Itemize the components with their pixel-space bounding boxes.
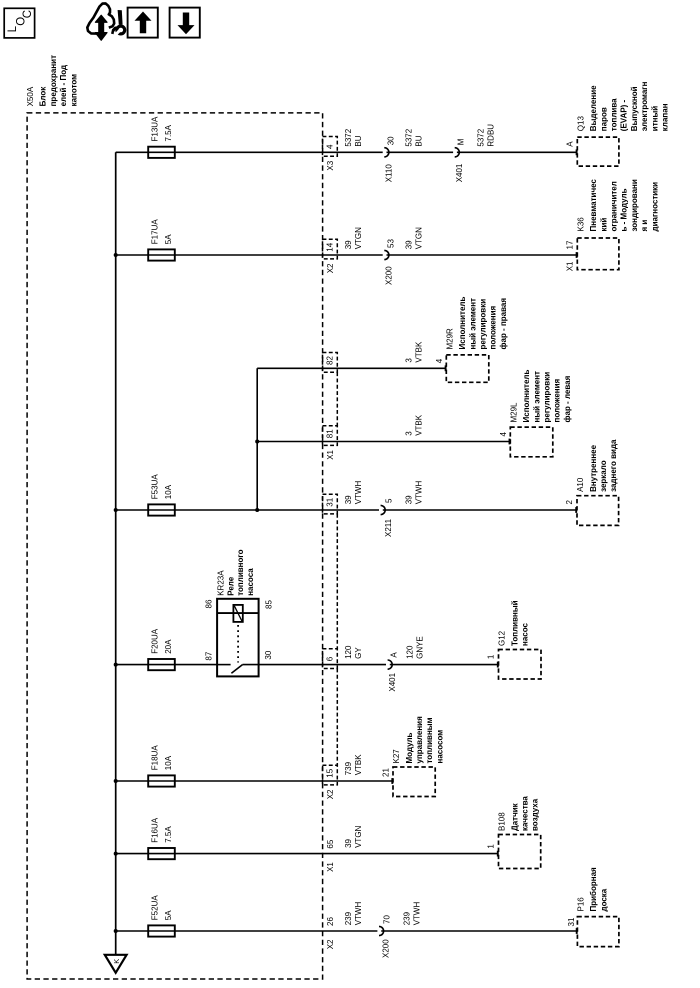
svg-text:P16: P16: [577, 897, 586, 912]
connector label X2 row5: [326, 789, 335, 799]
svg-text:VTGN: VTGN: [354, 227, 363, 249]
svg-text:управления: управления: [415, 716, 424, 764]
svg-text:ограничител: ограничител: [610, 181, 619, 231]
pin A of Q13: [565, 141, 574, 147]
svg-text:VTBK: VTBK: [354, 754, 363, 776]
svg-text:я и: я и: [640, 220, 649, 232]
svg-text:1: 1: [487, 844, 496, 849]
svg-text:топливного: топливного: [236, 549, 245, 595]
svg-text:70: 70: [382, 915, 391, 924]
svg-text:1: 1: [487, 654, 496, 659]
wire label 39 VTGN (1): [344, 227, 363, 249]
svg-text:6: 6: [326, 656, 335, 661]
svg-text:30: 30: [386, 136, 395, 145]
icon down arrow button: [170, 8, 200, 38]
svg-text:X401: X401: [455, 163, 464, 182]
fuse F53UA 10A: [148, 474, 175, 516]
svg-text:3: 3: [404, 358, 413, 363]
label K36 Пневматический ограничитель - Модуль зондирования и диагностики: [577, 179, 660, 232]
svg-text:26: 26: [326, 917, 335, 926]
wire label 39 VTWH (2): [404, 481, 423, 505]
svg-text:39: 39: [344, 838, 353, 847]
connector X1 dashed strip 31-6: [336, 514, 338, 649]
inline connector X200 pin 70: [379, 915, 391, 958]
svg-text:Реле: Реле: [226, 576, 235, 596]
svg-text:5372: 5372: [344, 128, 353, 146]
svg-text:F13UA: F13UA: [151, 116, 160, 142]
wire label 120 GY: [344, 645, 363, 659]
label M29L Исполнительный элемент регулировки положения фар - левая: [510, 370, 572, 423]
svg-text:39: 39: [404, 495, 413, 504]
svg-text:39: 39: [404, 240, 413, 249]
component K27 box: [393, 767, 435, 797]
svg-text:120: 120: [406, 645, 415, 659]
svg-text:VTWH: VTWH: [354, 902, 363, 926]
svg-text:X1: X1: [326, 862, 335, 872]
svg-text:X401: X401: [388, 672, 397, 691]
connector label X1 row6: [326, 862, 335, 872]
connector label X2 row2: [326, 263, 335, 273]
pin 4 of M29L: [499, 432, 508, 437]
component Q13 EVAP valve box: [577, 137, 619, 166]
svg-text:2: 2: [565, 500, 574, 505]
relay pin 86: [204, 599, 213, 608]
svg-text:3: 3: [404, 431, 413, 436]
svg-text:GY: GY: [354, 647, 363, 659]
svg-text:7.5A: 7.5A: [164, 124, 173, 141]
svg-text:39: 39: [344, 495, 353, 504]
svg-text:20A: 20A: [164, 639, 173, 654]
svg-text:зеркало: зеркало: [599, 460, 608, 492]
icon up arrow button: [128, 8, 158, 38]
svg-text:120: 120: [344, 645, 353, 659]
svg-text:239: 239: [403, 911, 412, 925]
component A10 box: [577, 496, 619, 526]
wire label 3 VTBK (81): [404, 414, 423, 436]
pin 1 of G12: [487, 654, 496, 659]
relay KR23A box: [217, 599, 259, 677]
svg-text:Исполнитель: Исполнитель: [522, 370, 531, 423]
svg-text:4: 4: [435, 358, 444, 363]
svg-text:кий: кий: [599, 218, 608, 232]
label P16 Приборная доска: [577, 867, 609, 912]
pin 2 of A10: [565, 500, 574, 505]
svg-text:53: 53: [386, 239, 395, 248]
label M29R Исполнительный элемент регулировки положения фар - правая: [446, 297, 508, 350]
svg-text:B108: B108: [498, 812, 507, 831]
svg-text:паров: паров: [599, 107, 608, 131]
svg-text:K36: K36: [577, 217, 586, 232]
label A10 Внутреннее зеркало заднего вида: [576, 439, 618, 492]
svg-text:31: 31: [567, 917, 576, 926]
wire X401 to G12: [390, 662, 498, 668]
svg-text:X3: X3: [326, 160, 335, 170]
wire branch 82 to M29R: [257, 365, 445, 371]
svg-text:F52UA: F52UA: [151, 895, 160, 921]
fuse F20UA 20A: [148, 628, 175, 670]
fuse F16UA 7.5A: [148, 817, 175, 859]
svg-text:фар - левая: фар - левая: [563, 375, 572, 422]
svg-text:85: 85: [265, 600, 274, 609]
svg-text:17: 17: [565, 240, 574, 249]
connector pin 6 on X1: [323, 649, 338, 669]
svg-text:X2: X2: [326, 789, 335, 799]
wire F17UA to X200: [116, 254, 383, 256]
svg-text:топлива: топлива: [610, 98, 619, 131]
svg-text:воздуха: воздуха: [531, 798, 540, 831]
svg-text:клапан: клапан: [661, 103, 670, 131]
svg-text:5: 5: [385, 498, 394, 503]
svg-text:739: 739: [344, 761, 353, 775]
component G12 box: [499, 650, 542, 680]
connector label X2 row7: [326, 939, 335, 949]
connector pin 26 on X2: [326, 917, 335, 926]
svg-text:положения: положения: [553, 378, 562, 422]
svg-text:F18UA: F18UA: [151, 745, 160, 771]
svg-text:F53UA: F53UA: [151, 474, 160, 500]
connector X1 dashed strip 82-81: [336, 372, 338, 426]
svg-text:Модуль: Модуль: [405, 732, 414, 763]
svg-text:5A: 5A: [164, 910, 173, 920]
component M29L box: [510, 427, 553, 457]
label B108 Датчик качества воздуха: [498, 796, 540, 831]
svg-text:21: 21: [381, 768, 390, 777]
svg-text:VTBK: VTBK: [414, 414, 423, 436]
svg-text:F17UA: F17UA: [151, 219, 160, 245]
svg-text:65: 65: [326, 839, 335, 848]
svg-text:Пневматичес: Пневматичес: [589, 179, 598, 232]
label K27 Модуль управления топливным насосом: [392, 716, 444, 764]
connector pin 15 on X2: [323, 765, 338, 785]
wire label 39 VTWH (1): [344, 481, 363, 505]
wire label 239 VTWH (1): [344, 902, 363, 926]
svg-text:A: A: [390, 652, 399, 658]
svg-text:VTGN: VTGN: [414, 227, 423, 249]
svg-text:87: 87: [204, 651, 213, 660]
svg-text:15: 15: [326, 768, 335, 777]
inline connector X401 pin M: [455, 138, 466, 182]
svg-text:предохранит: предохранит: [49, 55, 58, 106]
svg-text:A10: A10: [576, 477, 585, 492]
wire label 739 VTBK: [344, 754, 363, 776]
svg-text:M29L: M29L: [510, 402, 519, 423]
svg-text:X110: X110: [385, 164, 394, 183]
relay pin 85: [265, 600, 274, 609]
connector pin 31 on X1: [323, 494, 338, 514]
wire F18UA to K27: [116, 778, 393, 784]
svg-text:доска: доска: [599, 888, 608, 911]
svg-text:C: C: [22, 10, 34, 18]
label G12 Топливный насос: [498, 600, 530, 646]
svg-text:X200: X200: [385, 266, 394, 285]
junction dot bus row F20UA: [114, 663, 118, 667]
svg-text:ный элемент: ный элемент: [468, 298, 477, 350]
wire label 3 VTBK (82): [404, 341, 423, 363]
junction dot bus row F53UA: [114, 508, 118, 512]
svg-text:Датчик: Датчик: [510, 802, 519, 831]
wire label 120 GNYE: [406, 636, 425, 659]
svg-text:K27: K27: [392, 749, 401, 764]
svg-text:Внутреннее: Внутреннее: [589, 444, 598, 492]
junction dot bus row F16UA: [114, 852, 118, 856]
wire F52UA to X200: [116, 930, 378, 932]
svg-text:VTWH: VTWH: [413, 902, 422, 926]
svg-text:насос: насос: [521, 622, 530, 646]
svg-text:7.5A: 7.5A: [164, 826, 173, 843]
icon jump/hotlink: [87, 3, 124, 40]
component P16 box: [577, 917, 619, 947]
svg-text:VTBK: VTBK: [414, 341, 423, 363]
wire F20UA to relay: [116, 664, 217, 666]
fuse block X50A dashed outline: [27, 113, 323, 979]
svg-text:капотом: капотом: [69, 74, 78, 107]
relay KR23A coil: [233, 605, 242, 622]
relay coil divider: [217, 612, 259, 614]
junction dot bus row F17UA: [114, 253, 118, 257]
component M29R box: [446, 355, 489, 382]
svg-text:X211: X211: [384, 518, 393, 537]
svg-text:F20UA: F20UA: [151, 628, 160, 654]
wire label 5372 BU (1): [344, 128, 363, 146]
svg-text:Выделение: Выделение: [589, 85, 598, 131]
junction dot bus row F52UA: [114, 929, 118, 933]
svg-text:239: 239: [344, 911, 353, 925]
svg-text:VTGN: VTGN: [354, 825, 363, 847]
svg-text:BU: BU: [414, 135, 423, 146]
svg-text:Q13: Q13: [577, 116, 586, 132]
wire X200 to K36: [387, 252, 577, 258]
svg-text:X1: X1: [565, 261, 574, 271]
wire X200 to P16: [381, 928, 577, 934]
svg-text:фар - правая: фар - правая: [499, 298, 508, 350]
label KR23A Реле топливного насоса: [216, 549, 255, 595]
wire label 239 VTWH (2): [403, 902, 422, 926]
svg-text:ный элемент: ный элемент: [532, 371, 541, 423]
svg-text:диагностики: диагностики: [650, 182, 659, 232]
relay dotted link: [237, 625, 239, 663]
svg-text:VTWH: VTWH: [414, 481, 423, 505]
label Q13 Выделение паров топлива (EVAP) - Выпускной электромагнитный клапан: [577, 81, 670, 131]
svg-text:регулировки: регулировки: [543, 372, 552, 423]
component B108 box: [499, 835, 541, 869]
svg-text:F16UA: F16UA: [151, 817, 160, 843]
svg-text:39: 39: [344, 240, 353, 249]
inline connector X401 pin A row4: [388, 652, 399, 692]
svg-text:Топливный: Топливный: [510, 600, 519, 646]
connector label X1 row81: [326, 449, 335, 459]
svg-text:Исполнитель: Исполнитель: [458, 297, 467, 350]
wire relay to X401: [259, 664, 386, 666]
svg-text:31: 31: [326, 497, 335, 506]
connector label X3: [326, 160, 335, 170]
svg-text:G12: G12: [498, 630, 507, 646]
connector X1 dashed strip 6-15: [336, 669, 338, 766]
pin 17 of K36: [565, 240, 574, 249]
svg-text:5372: 5372: [476, 128, 485, 146]
pin 4 of M29R: [435, 358, 444, 363]
inline connector X200 pin 53: [384, 239, 395, 285]
svg-text:ь - Модуль: ь - Модуль: [620, 188, 629, 231]
svg-text:10A: 10A: [164, 755, 173, 770]
connector pin 81 on X1: [323, 426, 338, 446]
fuse F52UA 5A: [148, 895, 175, 937]
connector pin 65 on X1: [326, 839, 335, 848]
svg-text:M29R: M29R: [446, 328, 455, 350]
wire X110 to X401: [387, 151, 454, 153]
svg-text:GNYE: GNYE: [416, 636, 425, 659]
relay pin 30: [264, 650, 273, 659]
svg-text:30: 30: [264, 650, 273, 659]
relay switch contact: [217, 665, 259, 674]
wire label 5372 RDBU: [476, 124, 495, 147]
svg-text:BU: BU: [354, 135, 363, 146]
svg-text:RDBU: RDBU: [486, 124, 495, 147]
branch wire vertical from F53UA row: [256, 368, 258, 510]
svg-text:зондировани: зондировани: [630, 179, 639, 231]
svg-text:X50A: X50A: [26, 86, 35, 106]
svg-text:елей - Под: елей - Под: [59, 65, 68, 107]
inline connector X211 pin 5: [381, 498, 394, 537]
svg-text:X1: X1: [326, 449, 335, 459]
svg-text:5372: 5372: [404, 128, 413, 146]
connector pin 14 on X2: [323, 239, 338, 259]
relay pin 87: [204, 651, 213, 660]
junction dot bus row F18UA: [114, 779, 118, 783]
connector pin 82 on X1: [323, 353, 338, 373]
fuse F17UA 5A: [148, 219, 175, 261]
svg-text:Блок: Блок: [39, 86, 48, 107]
svg-text:M: M: [457, 138, 466, 145]
svg-text:X200: X200: [382, 939, 391, 958]
pin 1 of B108: [487, 844, 496, 849]
svg-text:81: 81: [326, 429, 335, 438]
svg-text:86: 86: [204, 599, 213, 608]
svg-text:A: A: [565, 141, 574, 147]
connector label X1 at K36: [565, 261, 574, 271]
wire F13UA to X110: [116, 151, 383, 153]
wire X211 to A10: [383, 507, 576, 513]
wire label 39 VTGN row6: [344, 825, 363, 847]
svg-text:заднего вида: заднего вида: [609, 439, 618, 492]
svg-text:KR23A: KR23A: [216, 570, 225, 596]
ground symbol K: [105, 955, 127, 973]
svg-text:VTWH: VTWH: [354, 481, 363, 505]
svg-text:качества: качества: [521, 796, 530, 831]
wire F16UA to B108: [116, 851, 498, 857]
fuse F18UA 10A: [148, 745, 175, 787]
icon LOC (location): [4, 8, 34, 38]
wire branch 81 to M29L: [257, 439, 509, 445]
svg-text:14: 14: [326, 242, 335, 251]
junction dot branch at F53UA wire: [255, 508, 259, 512]
pin 31 of P16: [567, 917, 576, 926]
bus wire from F13UA to ground: [115, 152, 117, 955]
svg-text:Выпускной: Выпускной: [630, 86, 639, 131]
svg-text:82: 82: [326, 356, 335, 365]
wire label 39 VTGN (2): [404, 227, 423, 249]
wire F53UA to X211: [116, 509, 379, 511]
pin 21 of K27: [381, 768, 390, 777]
wire X401 to Q13: [457, 149, 577, 155]
svg-text:итный: итный: [650, 106, 659, 132]
svg-text:4: 4: [326, 144, 335, 149]
svg-text:(EVAP) -: (EVAP) -: [620, 99, 629, 131]
svg-text:X2: X2: [326, 939, 335, 949]
inline connector X110 pin 30: [384, 136, 395, 182]
svg-text:X2: X2: [326, 263, 335, 273]
svg-text:K: K: [112, 959, 121, 964]
svg-text:5A: 5A: [164, 234, 173, 244]
wire label 5372 BU (2): [404, 128, 423, 146]
svg-text:положения: положения: [489, 305, 498, 349]
component K36 box: [577, 238, 619, 270]
svg-text:4: 4: [499, 432, 508, 437]
svg-text:насосом: насосом: [435, 730, 444, 764]
junction dot branch at row 81: [255, 440, 259, 444]
svg-text:насоса: насоса: [246, 568, 255, 596]
svg-text:электромагн: электромагн: [640, 81, 649, 131]
svg-text:регулировки: регулировки: [479, 299, 488, 350]
fuse F13UA 7.5A: [148, 116, 175, 158]
svg-text:Приборная: Приборная: [589, 867, 598, 912]
connector pin 4 on X3: [323, 137, 338, 157]
label X50A Блок предохранителей - Под капотом: [26, 55, 78, 106]
svg-text:топливным: топливным: [425, 717, 434, 763]
svg-text:10A: 10A: [164, 484, 173, 499]
